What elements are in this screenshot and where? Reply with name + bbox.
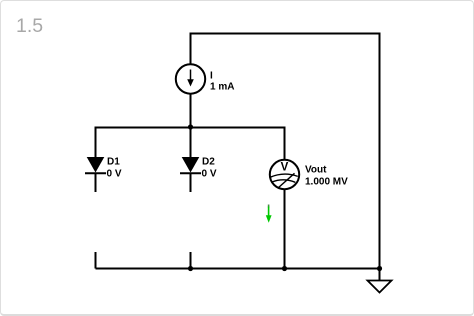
svg-text:Vout: Vout — [305, 165, 327, 176]
wire middle rail — [96, 127, 285, 129]
diode D2 — [180, 157, 217, 180]
svg-text:1.000 MV: 1.000 MV — [305, 176, 348, 187]
wire current source top lead — [190, 33, 192, 64]
node junction bottom rail right — [377, 266, 382, 271]
wire top rail — [190, 33, 381, 35]
svg-text:0 V: 0 V — [202, 168, 217, 179]
wire bottom rail left stub — [95, 252, 97, 269]
wire right vertical drop — [379, 33, 381, 269]
svg-text:D2: D2 — [202, 157, 215, 168]
node junction at mid rail — [188, 124, 193, 129]
wire D1 bottom stub — [95, 174, 97, 192]
wire current source bottom lead — [190, 94, 192, 127]
wire voltmeter bottom lead — [284, 189, 286, 269]
wire D2 bottom stub — [190, 174, 192, 192]
svg-text:D1: D1 — [107, 157, 120, 168]
wire bottom rail — [96, 268, 380, 270]
current source I — [176, 64, 235, 93]
voltmeter Vout — [270, 160, 348, 189]
diode D1 — [85, 157, 122, 180]
node junction bottom rail voltmeter — [282, 266, 287, 271]
wire D2 top lead — [190, 128, 192, 158]
svg-text:0 V: 0 V — [107, 168, 122, 179]
wire ground stub — [379, 269, 381, 281]
ground — [368, 281, 392, 293]
wire voltmeter top lead — [284, 127, 286, 161]
node junction bottom rail D2 — [188, 266, 193, 271]
current probe (green arrow) — [266, 205, 272, 223]
wire bottom rail middle stub — [190, 252, 192, 269]
wire D1 top lead — [95, 127, 97, 158]
svg-text:I: I — [210, 70, 213, 81]
svg-text:V: V — [281, 162, 289, 174]
svg-text:1 mA: 1 mA — [210, 82, 234, 93]
